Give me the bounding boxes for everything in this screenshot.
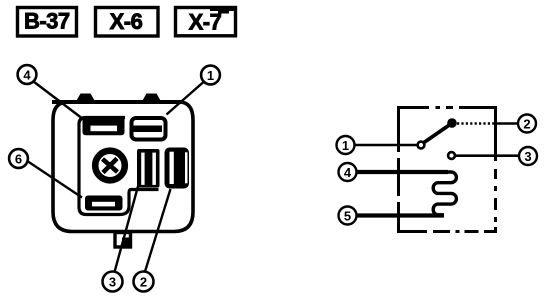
inner panel outline — [79, 118, 159, 215]
terminal slot box top-right — [132, 118, 166, 140]
leader line 2 — [145, 189, 171, 272]
terminal slot bottom-left — [85, 196, 123, 211]
svg-text:X-7: X-7 — [189, 10, 222, 35]
terminal 3 striped (inner) — [137, 149, 160, 188]
terminal slot top-left — [83, 117, 125, 136]
dotted wire dot to box edge — [457, 122, 494, 125]
svg-text:1: 1 — [207, 68, 214, 83]
schematic callout circle 5 — [339, 207, 357, 225]
relay coil — [433, 172, 456, 215]
relay schematic dashed box top edge — [397, 106, 497, 109]
svg-text:3: 3 — [109, 275, 116, 290]
switch common dot — [447, 118, 457, 128]
callout circle 6 — [9, 149, 28, 168]
relay schematic dashed box bottom edge — [397, 230, 497, 233]
callout circle 1 — [201, 66, 220, 85]
svg-text:X-6: X-6 — [110, 9, 143, 34]
switch blade — [424, 125, 450, 143]
callout circle 3 — [103, 272, 123, 292]
relay body outline — [53, 102, 193, 232]
svg-text:1: 1 — [342, 138, 349, 153]
switch pivot contact — [418, 142, 425, 149]
screw with X — [95, 151, 125, 181]
connector box X-6 — [96, 8, 159, 37]
wire box edge to circle 2 — [494, 122, 517, 125]
contact point 3 — [448, 152, 455, 159]
connector box B-37 — [18, 8, 77, 37]
leader line 3 — [115, 185, 139, 273]
wire contact 3 to circle 3 — [456, 154, 519, 157]
schematic callout circle 2 — [518, 115, 536, 133]
mounting bump right — [143, 94, 161, 101]
svg-text:4: 4 — [23, 68, 31, 83]
leader line 4 — [34, 82, 82, 118]
svg-text:6: 6 — [15, 152, 22, 167]
bottom tab — [115, 233, 131, 248]
svg-text:4: 4 — [344, 165, 352, 180]
relay schematic dashed box right edge — [494, 106, 497, 233]
callout circle 2 — [134, 272, 154, 292]
schematic callout circle 3 — [519, 147, 537, 165]
coil top lead wire — [357, 170, 448, 174]
connector box X-7 — [176, 6, 236, 36]
callout circle 4 — [18, 65, 37, 84]
relay top hat line — [52, 100, 183, 104]
wire from 1 to switch pivot — [355, 144, 418, 147]
schematic callout circle 4 — [339, 163, 357, 181]
terminal 2 striped (outer) — [165, 148, 190, 189]
svg-text:2: 2 — [523, 117, 530, 132]
coil bottom lead wire — [357, 213, 444, 217]
relay schematic dashed box left edge — [397, 106, 400, 232]
mounting bump left — [77, 94, 95, 101]
leader line 6 — [28, 162, 82, 198]
svg-text:3: 3 — [524, 149, 531, 164]
svg-text:5: 5 — [344, 209, 351, 224]
schematic callout circle 1 — [337, 136, 355, 154]
svg-text:2: 2 — [140, 275, 147, 290]
leader line 1 — [167, 82, 204, 115]
svg-text:B-37: B-37 — [24, 9, 70, 34]
